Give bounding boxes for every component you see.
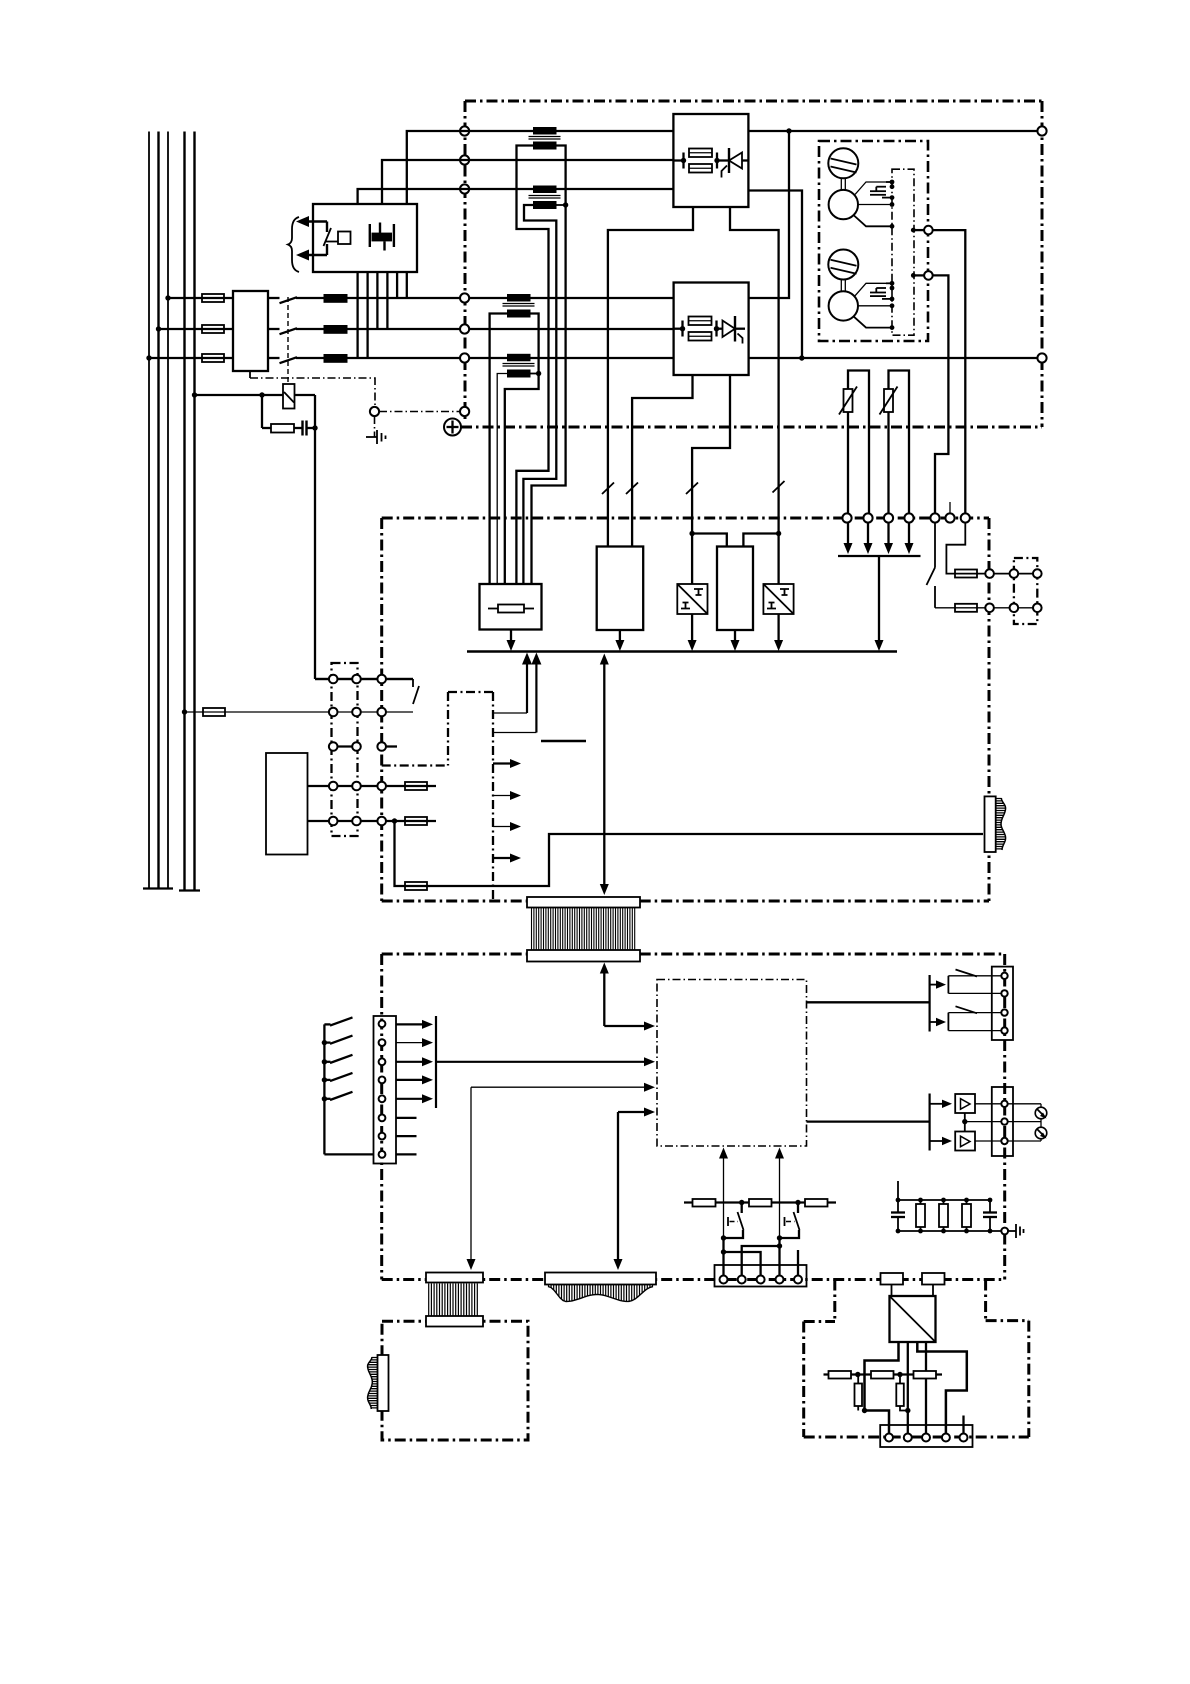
fuse aux 1 bbox=[405, 782, 427, 790]
control PCB left edge bbox=[380, 518, 383, 901]
arrow feedback to bus up bbox=[493, 653, 532, 714]
remote PCB bottom edge bbox=[804, 1436, 1029, 1439]
power unit enclosure top edge bbox=[465, 100, 1042, 103]
node CT4 join bbox=[536, 371, 541, 376]
node remote pin 1 bbox=[885, 1434, 893, 1442]
analog out bar bbox=[928, 1094, 930, 1151]
wire secondary c1 bbox=[396, 272, 398, 298]
node switch bus tap 5 bbox=[322, 1096, 327, 1101]
ribbon connector pins bbox=[532, 908, 635, 951]
resistor filter R2 bbox=[939, 1200, 948, 1231]
panel switch connector bbox=[374, 1016, 397, 1164]
transformer range arrow 2 bbox=[296, 244, 327, 261]
wire fan switch bbox=[927, 523, 936, 608]
remote PCB top left edge bbox=[804, 1320, 835, 1323]
wire contactor aux stub bbox=[249, 371, 251, 378]
keypad connector B pins bbox=[549, 1285, 653, 1302]
panel switch row 2 bbox=[324, 1036, 352, 1044]
node panel conn 2 bbox=[379, 1039, 386, 1046]
power supply section left bbox=[447, 692, 449, 766]
fuse control feed bbox=[203, 708, 225, 716]
gate driver box 1 bbox=[597, 547, 644, 631]
node chassis entry terminal bbox=[460, 407, 469, 416]
wire CT3 secondary left bbox=[490, 314, 507, 585]
wire CPU analog out bbox=[807, 1120, 930, 1122]
wire tap line 3 bbox=[358, 189, 674, 204]
wire trigger stub 5 bbox=[797, 1250, 799, 1276]
arrow varistor sense 2 bbox=[864, 522, 873, 554]
relay contact 1 bbox=[948, 970, 1004, 994]
wire converter out 2 bbox=[907, 1342, 909, 1434]
node M2 terminal 4 bbox=[890, 303, 895, 308]
current transformer CT4 primary bbox=[507, 354, 531, 362]
node fan fuse out 1 bbox=[985, 569, 994, 578]
node chassis terminal bbox=[370, 407, 379, 416]
wire secondary b1 bbox=[376, 272, 378, 329]
arrow trigger to CPU 2 bbox=[775, 1148, 784, 1247]
node M1 terminal 3 bbox=[890, 195, 895, 200]
ground filter bbox=[1009, 1224, 1024, 1238]
node relay conn 1 bbox=[1001, 973, 1007, 979]
node fan fuse out 2 bbox=[985, 604, 994, 613]
trigger contact 1 bbox=[724, 1203, 744, 1239]
wire M1 lead 1 bbox=[855, 182, 892, 195]
resistor trigger R5 bbox=[749, 1199, 772, 1207]
current transformer CT2 primary bbox=[533, 186, 557, 194]
node strip C1 bbox=[329, 742, 338, 751]
wire CT1 secondary left bbox=[516, 146, 548, 585]
node enclosure terminal 1 bbox=[460, 126, 469, 135]
relay out bar bbox=[928, 975, 930, 1032]
fuse F2 bbox=[202, 325, 224, 333]
node amp link bbox=[962, 1119, 967, 1124]
power supply section top bbox=[448, 691, 493, 693]
wire secondary a1 bbox=[356, 272, 358, 358]
node filter dots bbox=[896, 1198, 993, 1234]
wire fan supply 1 bbox=[933, 230, 966, 518]
node PCB edge terminal 4 bbox=[904, 513, 913, 522]
resistor trigger R6 bbox=[805, 1199, 828, 1207]
node PCB edge terminal 2 bbox=[863, 513, 872, 522]
wire CT3 secondary right bbox=[505, 314, 539, 585]
wire CT2 secondary left bbox=[523, 205, 556, 584]
node enclosure terminal 6 bbox=[460, 353, 469, 362]
varistor RV2 bbox=[880, 387, 898, 415]
wire remote stub 5 bbox=[962, 1416, 964, 1435]
wire V2 gate lead 1 bbox=[632, 375, 692, 547]
node strip A3 bbox=[377, 675, 386, 684]
contactor K1 bbox=[233, 291, 268, 371]
arrow varistor sense 1 bbox=[844, 522, 853, 554]
node N tap bbox=[182, 709, 187, 714]
front panel PCB bottom edge bbox=[382, 1278, 1005, 1281]
wire supply line L1 bbox=[148, 132, 150, 889]
wire interlock return bbox=[315, 678, 413, 680]
node enclosure terminal 4 bbox=[460, 293, 469, 302]
remote PCB right edge bbox=[1027, 1321, 1030, 1437]
thyristor V1 symbol bbox=[717, 148, 748, 178]
capacitor snubber C bbox=[303, 421, 316, 436]
wire strip row 3 bbox=[332, 745, 358, 747]
node fan enclosure terminal 1 bbox=[924, 226, 933, 235]
panel switch bus bbox=[323, 1024, 325, 1154]
node trigger join 2 bbox=[777, 1235, 782, 1240]
keypad connector B wave edge bbox=[548, 1287, 653, 1302]
node CT2 join bbox=[563, 202, 568, 207]
control PCB bottom edge bbox=[382, 900, 989, 903]
wire relay supply bbox=[195, 394, 316, 396]
wire CT4 secondary right bbox=[531, 373, 539, 375]
PE terminal symbol bbox=[444, 419, 461, 436]
transformer tap selector knob bbox=[338, 232, 351, 245]
node remote pin 5 bbox=[960, 1434, 968, 1442]
wire secondary a2 bbox=[366, 272, 368, 358]
fan unit enclosure bbox=[819, 141, 928, 341]
current transformer CT1 secondary bbox=[533, 142, 557, 150]
wire break mark bbox=[686, 483, 698, 495]
choke L1 bbox=[324, 294, 348, 303]
wire converter out 3 bbox=[925, 1342, 927, 1434]
ground bbox=[366, 430, 386, 444]
node PCB edge terminal 1 bbox=[842, 513, 851, 522]
wire RC branch down bbox=[261, 395, 263, 428]
wire break mark bbox=[602, 483, 614, 495]
control PCB top edge bbox=[382, 517, 989, 520]
front panel PCB left edge bbox=[380, 954, 383, 1280]
arrow supply out 2 bbox=[493, 791, 521, 800]
node enclosure terminal 3 bbox=[460, 184, 469, 193]
fuse F1 bbox=[202, 294, 224, 302]
node switch bus tap 4 bbox=[322, 1077, 327, 1082]
wire PCB link left bbox=[833, 1280, 836, 1322]
transformer tap switch link bbox=[326, 241, 338, 243]
node relay conn 4 bbox=[1001, 1027, 1007, 1033]
thermal sensor block 1 bbox=[881, 1273, 904, 1285]
transformer tap switch blade bbox=[324, 228, 332, 246]
potentiometer R10 bbox=[1035, 1104, 1047, 1127]
wire filter bottom rail bbox=[898, 1230, 1001, 1232]
wire converter out 1 bbox=[865, 1342, 899, 1411]
node trigger join 1 bbox=[721, 1235, 726, 1240]
wire chassis link dash-dot bbox=[250, 378, 375, 407]
wire trigger cross 2 bbox=[742, 1238, 783, 1276]
wire switch row 6 bbox=[396, 1117, 417, 1119]
resistor remote R13 bbox=[896, 1375, 908, 1411]
node torch pin 1 bbox=[720, 1276, 728, 1284]
wire tap line 2 bbox=[382, 160, 674, 204]
display PCB box bbox=[382, 1321, 528, 1440]
panel switch row 1 bbox=[324, 1017, 352, 1025]
wire fan fuse 2 bbox=[935, 607, 1037, 609]
node filter earth terminal bbox=[1001, 1228, 1008, 1235]
node output terminal A bbox=[1037, 126, 1046, 135]
transformer brace bbox=[288, 217, 299, 272]
fan M2 motor bbox=[829, 291, 858, 320]
wire break mark bbox=[626, 483, 638, 495]
wire pot wiper bbox=[965, 1121, 1041, 1123]
wire V1 fuse feed bbox=[673, 159, 683, 161]
remote connector bbox=[880, 1425, 972, 1447]
wire aux supply down bbox=[395, 821, 984, 886]
node relay branch bbox=[259, 392, 264, 397]
wire M2 lead 2 bbox=[858, 305, 892, 307]
wire interlock row bbox=[315, 678, 413, 680]
wire V2 to terminal B bbox=[749, 357, 1043, 359]
wire V1 lower output bbox=[748, 191, 802, 359]
wire filter top rail bbox=[898, 1199, 990, 1201]
node divider tap 1 bbox=[855, 1372, 860, 1377]
DC converter U1 bbox=[890, 1296, 936, 1342]
current transformer CT3 secondary bbox=[507, 310, 531, 318]
wire converter out 4 bbox=[917, 1342, 967, 1434]
relay K2 bbox=[283, 384, 295, 409]
arrow supply out 1 bbox=[493, 759, 521, 768]
current transformer CT4 core bbox=[503, 364, 535, 367]
trigger resistor chain bbox=[684, 1148, 836, 1287]
wire aux secondary 1 bbox=[308, 785, 437, 787]
interlock switch stub bbox=[412, 679, 414, 687]
display connector A upper bbox=[426, 1273, 483, 1283]
wire pole 3 to choke bbox=[296, 357, 326, 359]
resistor filter R1 bbox=[916, 1200, 925, 1231]
wire supply line L3 bbox=[167, 132, 169, 889]
node strip B1 bbox=[329, 708, 338, 717]
current transformer CT4 secondary bbox=[507, 370, 531, 378]
wire tap line 1 bbox=[407, 131, 674, 204]
node junction box out 1 bbox=[911, 228, 916, 233]
node M1 terminal 1 bbox=[890, 180, 895, 185]
node fan plug 2a bbox=[1010, 604, 1019, 613]
relay output connector bbox=[992, 967, 1013, 1040]
wire contactor pole 1 out bbox=[268, 297, 280, 299]
arrow relay drive 2 bbox=[930, 1018, 946, 1026]
resistor remote R8 bbox=[871, 1371, 894, 1379]
front panel PCB right edge bbox=[1003, 954, 1006, 1280]
node enclosure terminal 2 bbox=[460, 155, 469, 164]
ribbon connector lower half bbox=[527, 950, 640, 962]
thyristor V2 symbol bbox=[717, 316, 746, 344]
terminal strip box bbox=[332, 663, 358, 836]
wire contactor pole 2 out bbox=[268, 328, 280, 330]
transformer core symbol bbox=[370, 223, 394, 251]
node V1 fuse right bbox=[714, 158, 719, 163]
node L2 tap bbox=[156, 326, 161, 331]
front panel PCB top edge bbox=[382, 953, 1005, 956]
choke L2 bbox=[324, 325, 348, 334]
contactor contact blade 1 bbox=[280, 297, 298, 303]
wire filter stub up bbox=[897, 1181, 899, 1200]
arrow feedback to bus up 2 bbox=[493, 653, 541, 733]
wire pot feed 2 bbox=[975, 1140, 1041, 1142]
fan M1 shaft bbox=[841, 178, 845, 190]
wire fan supply 2 bbox=[933, 275, 949, 518]
resistor remote R7 bbox=[829, 1371, 852, 1379]
wire pole 2 to choke bbox=[296, 328, 326, 330]
node analog conn 2 bbox=[1001, 1118, 1007, 1124]
node M1 terminal 4 bbox=[890, 202, 895, 207]
node M2 terminal 3 bbox=[890, 297, 895, 302]
wire secondary c2 bbox=[406, 272, 408, 298]
node PCB edge terminal 7 bbox=[961, 513, 970, 522]
node strip B2 bbox=[352, 708, 361, 717]
buffer amplifier 2 bbox=[955, 1132, 975, 1151]
node divider tap 2 bbox=[897, 1372, 902, 1377]
wire phase 1 feed bbox=[168, 297, 233, 299]
wire CT2 secondary right bbox=[557, 204, 566, 206]
analog connector bbox=[992, 1087, 1013, 1156]
resistor filter R3 bbox=[962, 1200, 971, 1231]
varistor branch bracket 2 bbox=[889, 371, 910, 519]
fan M1 motor bbox=[829, 190, 858, 219]
node torch pin 2 bbox=[738, 1276, 746, 1284]
node strip C2 bbox=[352, 742, 361, 751]
resistor remote R9 bbox=[914, 1371, 937, 1379]
arrow switch out 1 bbox=[396, 1020, 433, 1029]
node strip C3 bbox=[377, 742, 386, 751]
node panel conn 5 bbox=[379, 1095, 386, 1102]
wire phase 1 to rectifier bbox=[347, 297, 674, 299]
power supply section right bbox=[492, 692, 494, 901]
isolation amplifier 1 bbox=[677, 584, 707, 614]
arrow driver 1 to bus bbox=[615, 630, 624, 651]
fuse V1 parallel pair bbox=[684, 149, 718, 173]
node strip E2 bbox=[352, 817, 361, 826]
remote PCB left edge bbox=[802, 1322, 805, 1438]
current transformer CT2 core bbox=[529, 196, 561, 199]
power unit enclosure bottom edge bbox=[461, 426, 1042, 429]
node strip B3 bbox=[377, 708, 386, 717]
node panel conn 1 bbox=[379, 1020, 386, 1027]
node PCB edge terminal 5 bbox=[930, 513, 939, 522]
node analog conn 3 bbox=[1001, 1138, 1007, 1144]
wire M1 lead 2 bbox=[858, 204, 892, 206]
arrow analog 2 bbox=[930, 1137, 952, 1145]
node relay conn 2 bbox=[1001, 990, 1007, 996]
node switch bus tap 3 bbox=[322, 1059, 327, 1064]
fuse V2 parallel pair bbox=[683, 317, 717, 341]
arrow amp 2 to bus bbox=[774, 614, 783, 651]
node strip E1 bbox=[329, 817, 338, 826]
current transformer CT2 secondary bbox=[533, 201, 557, 209]
fuse aux 2 bbox=[405, 817, 427, 825]
power unit enclosure left edge bbox=[464, 101, 467, 419]
wire supply line L2 bbox=[157, 132, 159, 889]
varistor sense bar bbox=[838, 555, 921, 557]
choke L3 bbox=[324, 354, 348, 363]
node L1 tap bbox=[146, 355, 151, 360]
node switch bus tap 2 bbox=[322, 1040, 327, 1045]
wire to remote pin 1 bbox=[865, 1411, 890, 1435]
fuse F3 bbox=[202, 354, 224, 362]
wire M1 lead 3 bbox=[854, 216, 892, 227]
wire V2 output up bbox=[749, 131, 790, 298]
arrow amp 1 to bus bbox=[688, 614, 697, 651]
wire strip row 3 stub bbox=[382, 745, 397, 747]
node PCB edge terminal 3 bbox=[884, 513, 893, 522]
fuse fan 2 bbox=[955, 604, 977, 612]
node analog conn 1 bbox=[1001, 1101, 1007, 1107]
wire V2 gate lead 2 bbox=[692, 375, 730, 584]
wire pole 1 to choke bbox=[296, 297, 326, 299]
node gate link 1 bbox=[689, 531, 694, 536]
wire pot feed 1 bbox=[975, 1103, 1041, 1105]
wire gate link right bbox=[743, 534, 778, 547]
node strip A1 bbox=[329, 675, 338, 684]
node M2 terminal 1 bbox=[890, 281, 895, 286]
node output terminal B bbox=[1037, 353, 1046, 362]
wire trigger cross 1 bbox=[721, 1238, 761, 1276]
wire control feed N bbox=[185, 711, 414, 713]
arrow ribbon link bus bbox=[600, 654, 609, 896]
node trigger tap 2 bbox=[795, 1200, 800, 1205]
node enclosure terminal 5 bbox=[460, 324, 469, 333]
panel switch row 4 bbox=[324, 1073, 352, 1081]
internal bus bbox=[467, 650, 897, 652]
card edge connector X1 bbox=[985, 796, 1006, 852]
display connector A lower bbox=[426, 1316, 483, 1327]
fan wiring junction box bbox=[892, 169, 914, 335]
arrow switch out 4 bbox=[396, 1075, 433, 1084]
node V1 fuse left bbox=[681, 158, 686, 163]
arrow trigger to CPU 1 bbox=[719, 1148, 728, 1239]
node junction box out 2 bbox=[911, 273, 916, 278]
CPU board box bbox=[657, 980, 807, 1147]
fan terminal box bbox=[1014, 558, 1037, 624]
node trigger tap 1 bbox=[739, 1200, 744, 1205]
arrow supply out 4 bbox=[493, 854, 521, 863]
node RC join bbox=[312, 425, 317, 430]
wire contactor pole 3 out bbox=[268, 357, 280, 359]
node strip D1 bbox=[329, 782, 338, 791]
node V2 fuse right bbox=[714, 326, 719, 331]
node L3 tap bbox=[165, 295, 170, 300]
node panel conn 6 bbox=[379, 1115, 386, 1122]
wire PCB link right bbox=[984, 1280, 987, 1321]
aux transformer T2 bbox=[266, 753, 308, 855]
wire V1 output to terminal A bbox=[748, 130, 1042, 132]
fan M1 impeller bbox=[828, 148, 858, 178]
contactor contact blade 2 bbox=[280, 328, 298, 334]
contactor mechanical link bbox=[287, 297, 289, 384]
varistor branch bracket 1 bbox=[848, 371, 869, 519]
node panel conn 8 bbox=[379, 1151, 386, 1158]
node PCB edge terminal 6 bbox=[945, 513, 954, 522]
wire phase 2 to rectifier bbox=[347, 328, 674, 330]
wire amp link bbox=[964, 1113, 966, 1132]
wire trigger rail bbox=[684, 1201, 836, 1203]
current transformer CT3 primary bbox=[507, 294, 531, 302]
wire CT4 secondary left bbox=[497, 374, 507, 585]
isolation amplifier 2 bbox=[763, 584, 793, 614]
node relay conn 3 bbox=[1001, 1009, 1007, 1015]
node torch pin 4 bbox=[776, 1276, 784, 1284]
arrow switch out 3 bbox=[396, 1057, 433, 1066]
wire gate link left bbox=[692, 534, 727, 547]
buffer amplifier 1 bbox=[955, 1094, 975, 1113]
display connector A pins bbox=[429, 1284, 478, 1317]
arrow ribbon to CPU bbox=[600, 963, 655, 1031]
node fan plug 2b bbox=[1033, 604, 1042, 613]
wire sensor 2 to converter bbox=[932, 1285, 934, 1297]
node M1 terminal 5 bbox=[890, 224, 895, 229]
wire supply line PE bbox=[193, 132, 195, 891]
node output B junction bbox=[799, 355, 804, 360]
node panel conn 3 bbox=[379, 1058, 386, 1065]
panel switch row 5 bbox=[324, 1092, 352, 1100]
capacitor filter C2 bbox=[983, 1200, 997, 1231]
arrow sense to bus bbox=[875, 556, 884, 651]
node torch pin 3 bbox=[757, 1276, 765, 1284]
